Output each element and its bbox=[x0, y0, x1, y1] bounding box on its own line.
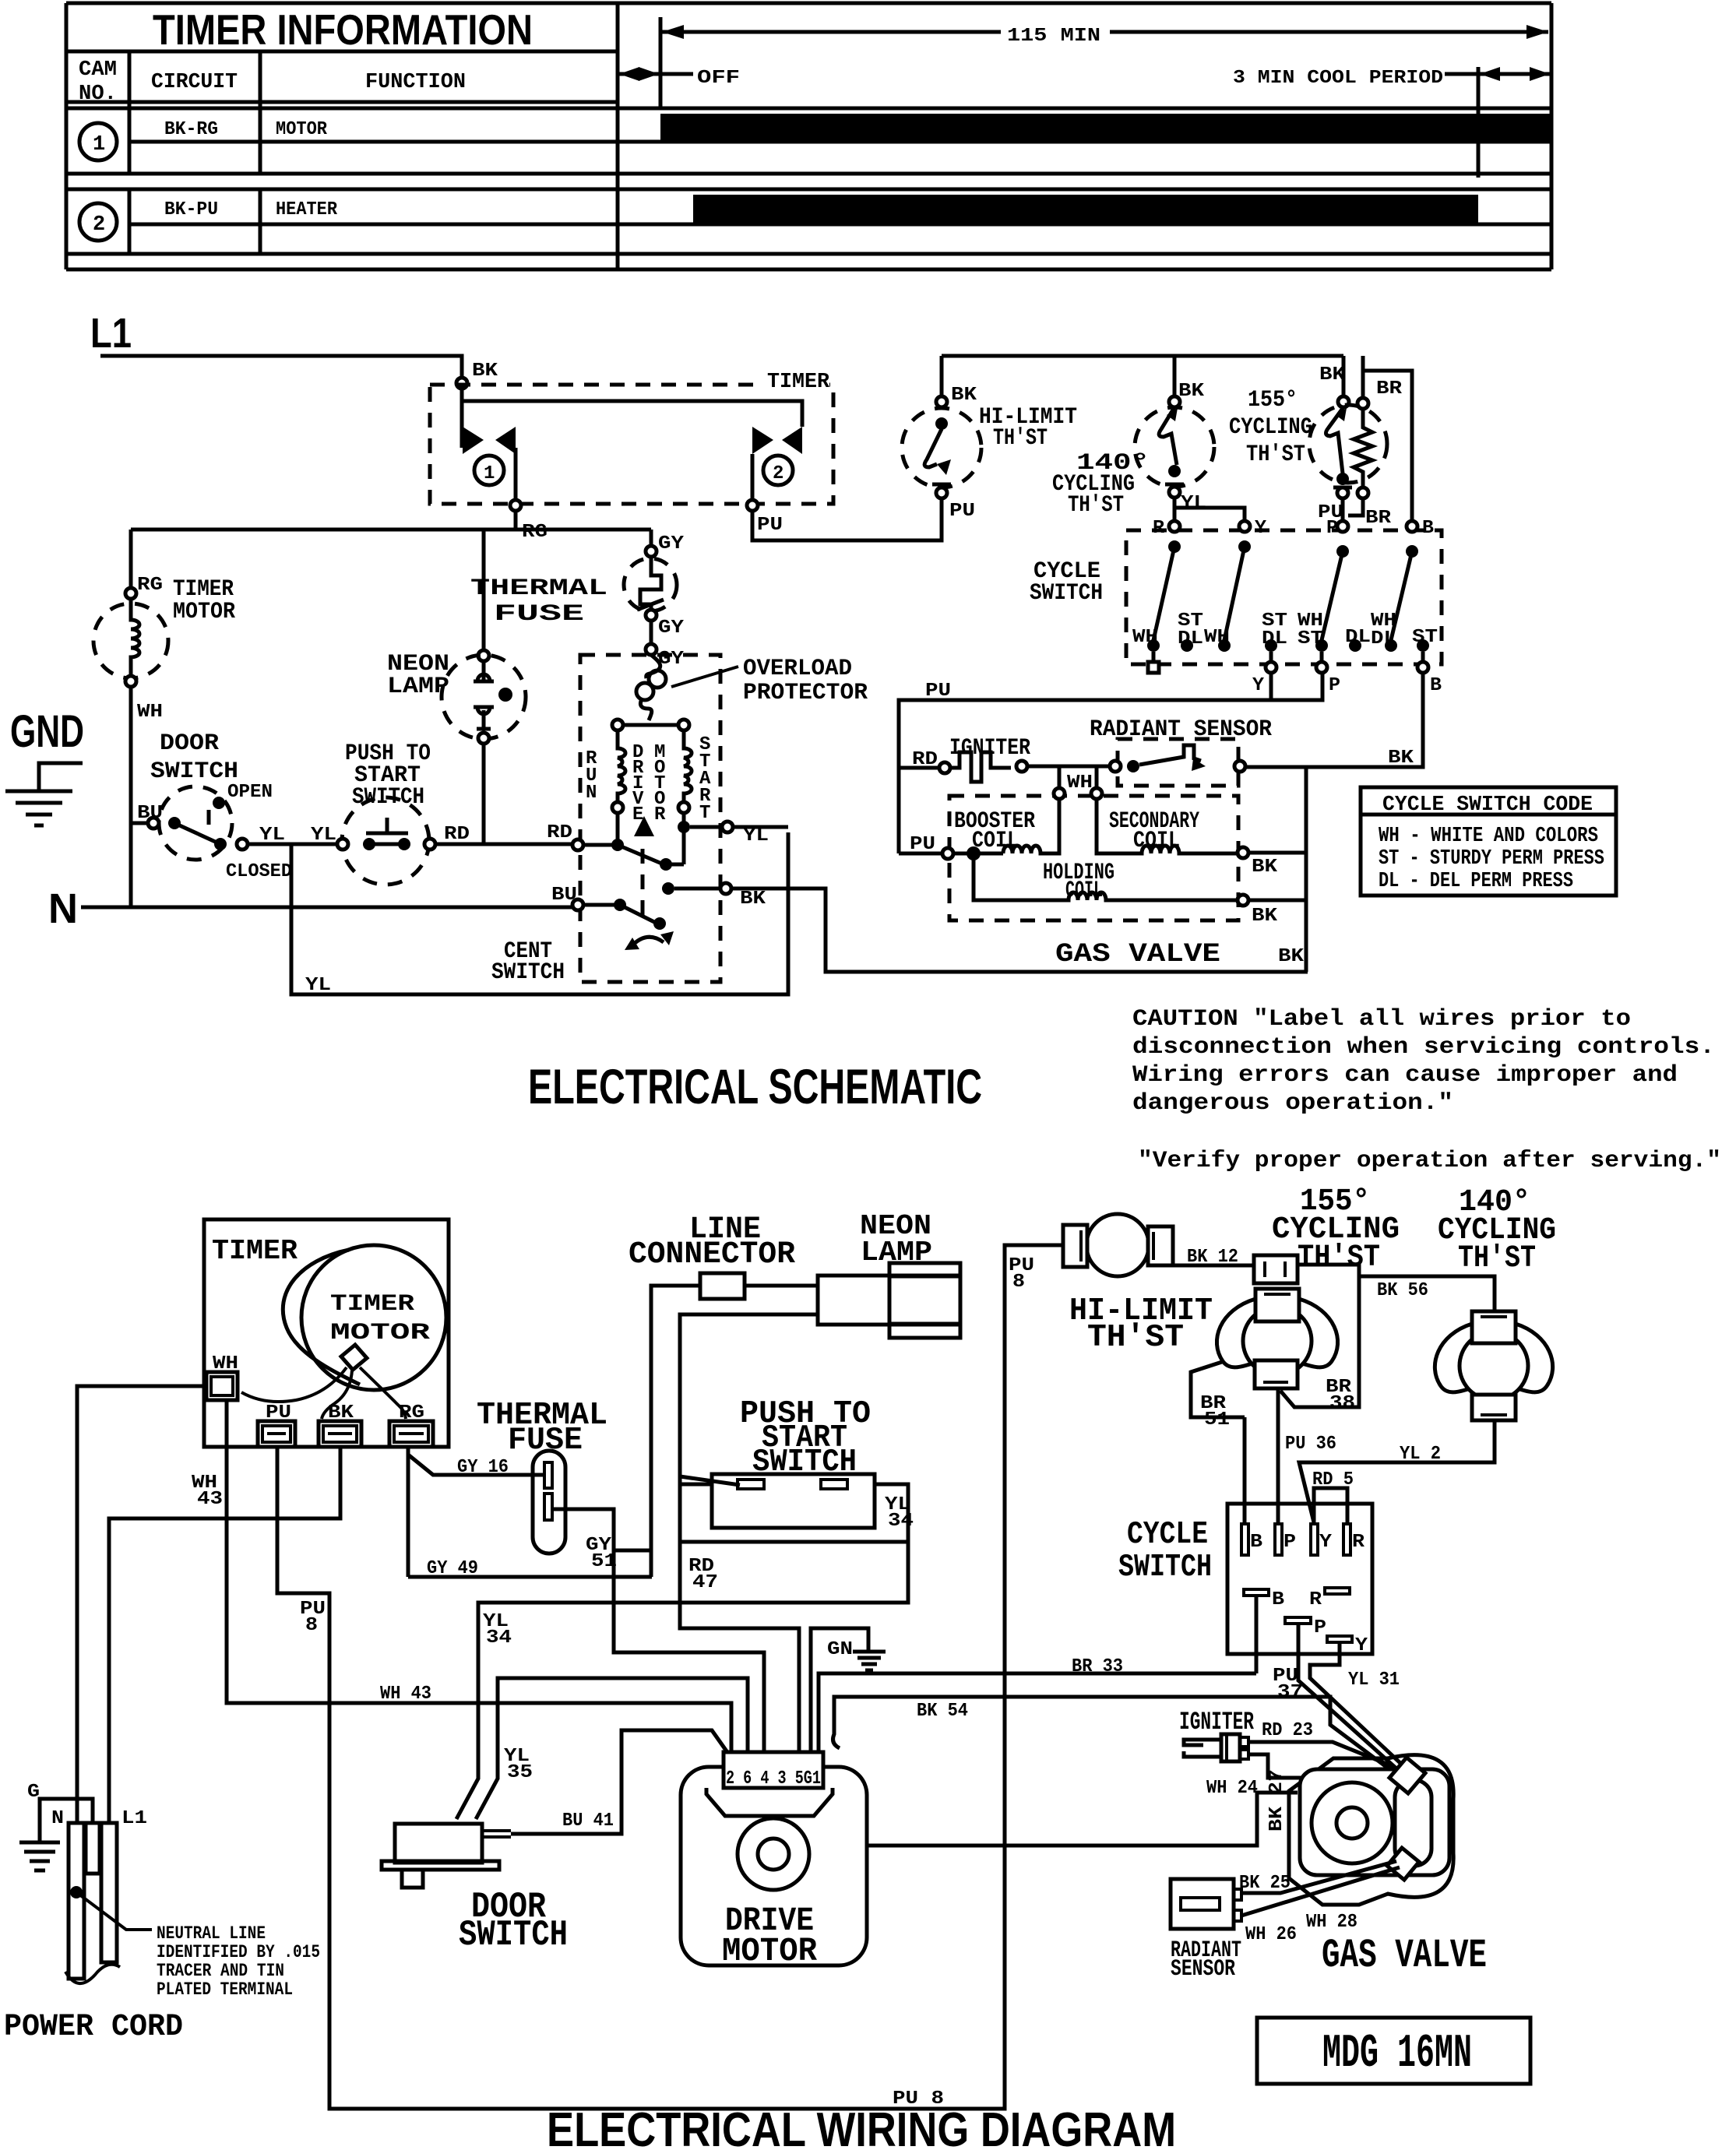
line connector box bbox=[700, 1273, 745, 1299]
cycle switch lower contact R bbox=[1325, 1588, 1350, 1594]
wire BK motor to gas valve bbox=[731, 889, 1308, 972]
timer motor crank diamond bbox=[341, 1345, 367, 1370]
svg-text:YL: YL bbox=[743, 825, 769, 846]
push-to-start contacts bbox=[363, 838, 375, 850]
svg-text:SWITCH: SWITCH bbox=[1118, 1550, 1212, 1585]
svg-text:YL 31: YL 31 bbox=[1348, 1670, 1400, 1691]
140 dashed circle bbox=[1135, 407, 1214, 487]
svg-text:BK 25: BK 25 bbox=[1239, 1873, 1291, 1894]
wire BK gas valve bus bbox=[1305, 767, 1308, 972]
cam number 1 bbox=[79, 123, 117, 160]
bias resistor branch BR bbox=[1361, 356, 1365, 398]
svg-text:BK: BK bbox=[1319, 364, 1346, 385]
terminal RG circle timer motor bbox=[125, 588, 136, 599]
neon lamp branch wire bbox=[482, 530, 486, 650]
svg-text:RD 23: RD 23 bbox=[1262, 1720, 1313, 1741]
svg-text:BK: BK bbox=[1252, 857, 1278, 878]
power cord ground bbox=[40, 1799, 93, 1842]
terminal YL circle motor bbox=[722, 822, 733, 832]
svg-text:GN: GN bbox=[827, 1639, 853, 1660]
terminal BU circle motor bbox=[572, 899, 583, 910]
svg-text:OPEN: OPEN bbox=[227, 782, 273, 803]
wire WH 24 bbox=[1248, 1754, 1393, 1778]
155 connector plug bbox=[1254, 1255, 1298, 1283]
svg-text:Y: Y bbox=[1252, 675, 1265, 696]
secondary coil row bbox=[1095, 768, 1099, 788]
155 cycling thermostat body bbox=[1217, 1289, 1337, 1388]
timer box bbox=[204, 1219, 449, 1447]
terminal WH circle timer motor bbox=[125, 676, 136, 687]
svg-text:8: 8 bbox=[305, 1615, 318, 1636]
svg-text:TIMER INFORMATION: TIMER INFORMATION bbox=[153, 5, 533, 54]
wire RD 5 bbox=[1314, 1488, 1347, 1524]
terminal P bbox=[1337, 521, 1348, 532]
svg-text:N: N bbox=[51, 1808, 64, 1829]
wire BK 56 bbox=[1359, 1276, 1495, 1311]
svg-text:RD 5: RD 5 bbox=[1312, 1469, 1354, 1490]
terminal WH box bbox=[206, 1372, 238, 1400]
svg-text:GY: GY bbox=[658, 533, 685, 554]
svg-text:34: 34 bbox=[486, 1627, 512, 1649]
wire BU row bbox=[583, 903, 614, 907]
svg-text:BR: BR bbox=[1365, 508, 1392, 529]
wire to radiant sensor bbox=[1027, 765, 1110, 769]
svg-text:CIRCUIT: CIRCUIT bbox=[151, 71, 238, 94]
svg-text:FUNCTION: FUNCTION bbox=[365, 71, 466, 94]
svg-text:"Verify proper operation after: "Verify proper operation after serving." bbox=[1138, 1148, 1721, 1174]
cent switch throw arc bbox=[631, 937, 664, 947]
ground symbol GND bbox=[5, 763, 83, 825]
svg-text:CAM: CAM bbox=[79, 58, 117, 82]
svg-text:TIMER: TIMER bbox=[212, 1235, 298, 1267]
wire PU to hi-limit bbox=[752, 498, 942, 540]
svg-text:ST: ST bbox=[1298, 628, 1323, 649]
svg-text:MDG 16MN: MDG 16MN bbox=[1322, 2028, 1472, 2081]
wire BU 41 bbox=[511, 1730, 731, 1834]
wire resistor bottom to PU bbox=[1348, 498, 1363, 516]
svg-text:PU 36: PU 36 bbox=[1285, 1434, 1336, 1455]
drive motor rotor circles bbox=[738, 1818, 809, 1890]
svg-text:MOTOR: MOTOR bbox=[330, 1320, 430, 1346]
svg-text:P: P bbox=[1314, 1617, 1326, 1638]
155 dashed circle bbox=[1309, 405, 1387, 483]
svg-text:BK 12: BK 12 bbox=[1187, 1247, 1238, 1268]
terminal RG circle bbox=[510, 500, 521, 511]
terminal circle neon bottom bbox=[478, 733, 489, 744]
wire cam1 to RG terminal bbox=[514, 448, 518, 500]
wire thermal fuse drop bbox=[650, 530, 653, 546]
wire RG drop to bus bbox=[514, 511, 518, 530]
gas valve dashed box bbox=[949, 796, 1238, 920]
terminal BU circle door switch bbox=[148, 818, 159, 829]
svg-text:GND: GND bbox=[10, 706, 84, 757]
cycle switch pins B P Y R bbox=[1241, 1524, 1248, 1555]
svg-text:B: B bbox=[1250, 1532, 1262, 1553]
svg-text:COIL: COIL bbox=[1133, 828, 1180, 854]
svg-text:BK 56: BK 56 bbox=[1377, 1280, 1428, 1301]
svg-text:MOTOR: MOTOR bbox=[276, 119, 328, 140]
svg-text:WH: WH bbox=[1067, 772, 1093, 793]
door switch body bbox=[395, 1824, 482, 1863]
svg-text:BK-PU: BK-PU bbox=[164, 199, 218, 220]
motor top node bbox=[623, 723, 678, 727]
radiant sensor body bbox=[1171, 1879, 1234, 1929]
cent switch start blade bbox=[618, 845, 664, 864]
holding coil row bbox=[974, 860, 1238, 900]
svg-text:NEUTRAL LINE: NEUTRAL LINE bbox=[157, 1923, 266, 1944]
svg-text:BR 33: BR 33 bbox=[1072, 1656, 1123, 1677]
power cord conductor L1 bbox=[101, 1823, 117, 1962]
svg-text:DL: DL bbox=[1371, 628, 1396, 649]
svg-text:GAS VALVE: GAS VALVE bbox=[1322, 1933, 1487, 1979]
hi-limit lower contact bbox=[932, 484, 951, 487]
heater cam timing bar bbox=[693, 195, 1478, 223]
svg-text:WH 24: WH 24 bbox=[1206, 1778, 1258, 1799]
svg-text:38: 38 bbox=[1329, 1393, 1355, 1414]
thermal fuse element bbox=[640, 557, 661, 610]
svg-text:TH'ST: TH'ST bbox=[1246, 442, 1305, 468]
wire PU 8 bbox=[277, 1245, 1063, 2109]
timer cam 1 contacts bbox=[463, 427, 484, 454]
power cord sheath bbox=[65, 1965, 120, 1983]
svg-text:ST: ST bbox=[1412, 627, 1438, 648]
wire N to door switch bbox=[131, 822, 148, 825]
push to start switch dashed circle bbox=[342, 797, 429, 885]
cycle switch lower contact Y bbox=[1327, 1636, 1352, 1642]
svg-text:L1: L1 bbox=[121, 1808, 147, 1829]
svg-text:FUSE: FUSE bbox=[508, 1423, 583, 1459]
terminal WH circle bbox=[1054, 788, 1065, 799]
svg-text:8: 8 bbox=[1012, 1272, 1025, 1293]
svg-text:3 MIN COOL PERIOD: 3 MIN COOL PERIOD bbox=[1233, 68, 1443, 89]
svg-text:RG: RG bbox=[137, 575, 163, 596]
svg-text:B: B bbox=[1272, 1589, 1284, 1610]
svg-text:BK: BK bbox=[472, 361, 498, 382]
svg-text:MOTOR: MOTOR bbox=[722, 1932, 817, 1970]
svg-text:BK: BK bbox=[740, 889, 766, 910]
svg-text:MOTOR: MOTOR bbox=[173, 599, 235, 625]
svg-text:NO.: NO. bbox=[79, 83, 117, 106]
svg-text:WH - WHITE AND COLORS: WH - WHITE AND COLORS bbox=[1379, 825, 1598, 848]
svg-text:TH'ST: TH'ST bbox=[1458, 1241, 1536, 1276]
svg-text:SWITCH: SWITCH bbox=[491, 959, 565, 986]
timer motor circle bbox=[301, 1245, 446, 1390]
terminal YL circle door switch bbox=[237, 839, 248, 850]
wire WH 43 bbox=[227, 1400, 731, 1754]
wire BK top bus right bbox=[942, 354, 1343, 358]
hi-limit thermostat branch bbox=[940, 356, 944, 396]
neon lamp body bbox=[818, 1276, 960, 1325]
svg-text:ST - STURDY PERM PRESS: ST - STURDY PERM PRESS bbox=[1379, 847, 1604, 871]
dimension tick line left bbox=[659, 17, 663, 108]
wire PU 36 bbox=[1276, 1388, 1280, 1524]
start winding bbox=[684, 730, 692, 802]
svg-text:BK 54: BK 54 bbox=[917, 1701, 968, 1722]
cycle switch code box bbox=[1361, 787, 1616, 896]
svg-text:51: 51 bbox=[591, 1551, 617, 1572]
svg-text:ELECTRICAL SCHEMATIC: ELECTRICAL SCHEMATIC bbox=[528, 1060, 982, 1114]
svg-text:DL - DEL PERM PRESS: DL - DEL PERM PRESS bbox=[1379, 870, 1573, 893]
svg-text:WH 28: WH 28 bbox=[1306, 1912, 1357, 1933]
svg-text:2 6 4 3 5G1: 2 6 4 3 5G1 bbox=[726, 1768, 821, 1789]
terminal circle push-to-start left bbox=[337, 839, 348, 850]
wire neon to RD row bbox=[482, 744, 486, 844]
wire timer motor to N line bbox=[129, 687, 133, 907]
radiant sensor contacts bbox=[1110, 761, 1121, 772]
bottom terminal stubs bbox=[1152, 652, 1156, 662]
svg-text:1: 1 bbox=[93, 133, 105, 157]
timer motor dashed circle bbox=[93, 603, 168, 678]
booster coil bbox=[1003, 799, 1059, 853]
svg-text:BK: BK bbox=[328, 1402, 354, 1423]
door switch open contact bbox=[213, 797, 225, 809]
svg-text:T: T bbox=[699, 803, 710, 824]
svg-text:RG: RG bbox=[399, 1402, 424, 1423]
wire GY 51 bbox=[552, 1509, 764, 1754]
svg-text:PROTECTOR: PROTECTOR bbox=[743, 680, 868, 706]
svg-text:SENSOR: SENSOR bbox=[1171, 1956, 1235, 1983]
igniter body bbox=[1221, 1734, 1240, 1761]
svg-text:SWITCH: SWITCH bbox=[459, 1915, 568, 1955]
svg-text:B: B bbox=[1430, 675, 1442, 696]
terminal GY circle motor box bbox=[646, 644, 657, 655]
neon lamp dashed circle bbox=[442, 655, 526, 739]
wiper arrow bbox=[634, 816, 654, 836]
svg-text:disconnection when servicing c: disconnection when servicing controls. bbox=[1132, 1034, 1715, 1061]
overload protector element bbox=[646, 655, 660, 678]
svg-text:RD: RD bbox=[912, 749, 938, 770]
svg-text:RG: RG bbox=[522, 522, 548, 543]
svg-text:FUSE: FUSE bbox=[494, 601, 584, 628]
svg-text:OFF: OFF bbox=[697, 68, 740, 89]
svg-text:TH'ST: TH'ST bbox=[1298, 1240, 1380, 1276]
terminal RD circle motor bbox=[572, 839, 583, 850]
svg-text:BK: BK bbox=[1278, 946, 1305, 967]
timer internal wires bbox=[241, 1367, 347, 1402]
wire YL 2 bbox=[1299, 1420, 1495, 1522]
svg-text:RADIANT SENSOR: RADIANT SENSOR bbox=[1090, 716, 1272, 743]
wire B to sensor line bbox=[1245, 673, 1423, 767]
svg-text:BK 27: BK 27 bbox=[1266, 1769, 1287, 1832]
terminal GY circle lower bbox=[646, 610, 657, 621]
svg-text:115 MIN: 115 MIN bbox=[1007, 26, 1100, 47]
svg-text:TH'ST: TH'ST bbox=[1068, 492, 1124, 519]
wire line connector to neon bbox=[614, 1286, 818, 1577]
svg-text:PU: PU bbox=[910, 834, 935, 855]
wire GY 16 bbox=[408, 1447, 545, 1577]
cycle switch dashed box bbox=[1126, 530, 1442, 664]
svg-text:WH: WH bbox=[213, 1353, 238, 1374]
svg-text:DOOR: DOOR bbox=[160, 730, 219, 757]
push to start switch box bbox=[680, 1484, 908, 1542]
start winding lower terminal bbox=[678, 802, 689, 813]
terminal Y bbox=[1239, 521, 1250, 532]
svg-text:DL: DL bbox=[1345, 627, 1371, 648]
resistor element bbox=[1354, 409, 1372, 487]
svg-text:DL: DL bbox=[1178, 628, 1203, 649]
svg-text:BR: BR bbox=[1376, 378, 1403, 399]
svg-text:IDENTIFIED BY .015: IDENTIFIED BY .015 bbox=[157, 1942, 320, 1962]
power cord conductor N bbox=[69, 1823, 84, 1979]
timer dashed box bbox=[430, 385, 833, 504]
svg-text:SWITCH: SWITCH bbox=[150, 758, 238, 785]
svg-text:PU: PU bbox=[949, 501, 975, 522]
wire neon to push-to-start and RD 47 bbox=[680, 1314, 818, 1754]
wire BK timer to power cord L1 bbox=[109, 1447, 340, 1823]
wire GY to overload bbox=[650, 621, 653, 644]
wire igniter row bbox=[899, 766, 939, 770]
svg-text:LAMP: LAMP bbox=[861, 1237, 932, 1269]
svg-text:ELECTRICAL WIRING DIAGRAM: ELECTRICAL WIRING DIAGRAM bbox=[547, 2103, 1176, 2150]
terminal PU circle bbox=[747, 500, 758, 511]
thermal fuse dashed circle bbox=[624, 558, 677, 611]
gas valve bottom plug bbox=[1387, 1848, 1419, 1880]
radiant sensor dashed box bbox=[1118, 739, 1238, 786]
door switch dashed circle bbox=[159, 786, 232, 860]
svg-text:SWITCH: SWITCH bbox=[1030, 580, 1103, 607]
cycle switch lower contact B bbox=[1244, 1589, 1269, 1596]
wire neon lamp into left slot bbox=[680, 1476, 740, 1485]
svg-text:N: N bbox=[586, 783, 597, 804]
svg-text:YL: YL bbox=[311, 825, 336, 846]
drive motor body bbox=[681, 1767, 867, 1965]
terminal GY circle bbox=[646, 546, 657, 557]
svg-text:IGNITER: IGNITER bbox=[1179, 1708, 1255, 1737]
140 cycling thermostat branch bbox=[1173, 356, 1177, 396]
svg-text:BU: BU bbox=[551, 885, 577, 906]
dash link door switch bbox=[207, 810, 211, 832]
svg-text:CYCLING: CYCLING bbox=[1229, 414, 1312, 441]
svg-text:P: P bbox=[1326, 518, 1338, 539]
wire BR 38 bbox=[1280, 1265, 1359, 1407]
dimension tick line right bbox=[1477, 67, 1481, 178]
svg-text:35: 35 bbox=[507, 1762, 533, 1783]
neon lamp electrodes bbox=[474, 661, 494, 729]
svg-text:dangerous operation.": dangerous operation." bbox=[1132, 1090, 1453, 1117]
svg-text:PLATED TERMINAL: PLATED TERMINAL bbox=[157, 1979, 293, 2000]
svg-text:LAMP: LAMP bbox=[387, 674, 449, 700]
wire RG bus bbox=[131, 528, 651, 532]
svg-text:WH 26: WH 26 bbox=[1245, 1924, 1297, 1945]
svg-text:BK: BK bbox=[951, 385, 977, 406]
115 MIN dimension arrow bbox=[662, 25, 1548, 39]
svg-text:BK: BK bbox=[1252, 906, 1278, 927]
svg-text:HEATER: HEATER bbox=[276, 199, 338, 220]
svg-text:SWITCH: SWITCH bbox=[352, 784, 424, 811]
svg-text:2: 2 bbox=[93, 213, 105, 237]
timer cam 2 contacts bbox=[752, 427, 773, 454]
wire PU net Y P to gas valve bbox=[899, 673, 1322, 853]
push button symbol bbox=[366, 818, 408, 833]
svg-text:WH 43: WH 43 bbox=[380, 1684, 431, 1705]
svg-text:Wiring errors can cause improp: Wiring errors can cause improper and bbox=[1132, 1062, 1678, 1089]
svg-text:RD: RD bbox=[444, 824, 470, 845]
motor cam timing bar bbox=[660, 114, 1551, 140]
svg-text:YL: YL bbox=[259, 825, 285, 846]
svg-text:SWITCH: SWITCH bbox=[752, 1444, 857, 1480]
wire RD 23 bbox=[1248, 1742, 1394, 1767]
wire L1 to timer BK bbox=[100, 356, 462, 378]
gas valve body bbox=[1289, 1755, 1453, 1905]
svg-text:CONNECTOR: CONNECTOR bbox=[629, 1237, 795, 1272]
wire BR 51 bbox=[1191, 1361, 1245, 1417]
OFF dimension arrow bbox=[619, 67, 693, 81]
svg-text:WH: WH bbox=[137, 702, 163, 723]
svg-text:Y: Y bbox=[1255, 518, 1267, 539]
svg-text:YL: YL bbox=[1181, 493, 1206, 514]
svg-text:GY 16: GY 16 bbox=[457, 1457, 509, 1478]
run winding bbox=[618, 730, 625, 802]
wire BK 54 bbox=[833, 1697, 1396, 1774]
wire GY 49 bbox=[408, 1575, 652, 1579]
wire YL return drop bbox=[291, 832, 788, 994]
terminal BK circle bbox=[456, 378, 467, 389]
svg-text:RD: RD bbox=[547, 822, 572, 843]
terminal PU box bbox=[258, 1421, 295, 1447]
thermal fuse blade slash bbox=[637, 600, 664, 610]
terminal circle neon top bbox=[478, 650, 489, 661]
wire YL 35 bbox=[476, 1678, 748, 1819]
igniter element bbox=[950, 752, 1011, 782]
svg-text:IGNITER: IGNITER bbox=[949, 735, 1030, 762]
svg-text:R: R bbox=[654, 804, 666, 825]
timer information table frame bbox=[66, 3, 1551, 269]
155 cycling thermostat branch bbox=[1342, 356, 1346, 396]
svg-text:POWER CORD: POWER CORD bbox=[4, 2010, 183, 2045]
svg-text:GAS VALVE: GAS VALVE bbox=[1055, 940, 1220, 969]
svg-text:CYCLE: CYCLE bbox=[1127, 1517, 1208, 1553]
svg-text:BK-RG: BK-RG bbox=[164, 119, 218, 140]
terminal BK box bbox=[319, 1421, 361, 1447]
svg-text:P: P bbox=[1329, 675, 1340, 696]
terminal RG box bbox=[389, 1421, 433, 1447]
wire BK 12 bbox=[1168, 1264, 1254, 1268]
svg-text:51: 51 bbox=[1204, 1409, 1230, 1430]
svg-text:CYCLE SWITCH CODE: CYCLE SWITCH CODE bbox=[1382, 793, 1593, 817]
cycle switch box bbox=[1227, 1504, 1372, 1654]
wire RD push-to-start to motor bbox=[435, 843, 572, 846]
svg-text:2: 2 bbox=[773, 463, 783, 484]
door switch common junction bbox=[168, 817, 181, 829]
timer motor belt loop bbox=[283, 1250, 360, 1385]
svg-text:GY 49: GY 49 bbox=[427, 1558, 478, 1579]
svg-text:TRACER AND TIN: TRACER AND TIN bbox=[157, 1961, 284, 1981]
wire cam2 to PU terminal bbox=[751, 454, 755, 500]
terminal B bbox=[1407, 521, 1417, 532]
wire RD inside motor bbox=[583, 843, 618, 847]
hi-limit thermostat body bbox=[1086, 1214, 1149, 1276]
igniter fork bbox=[1184, 1740, 1221, 1757]
door switch terminal tab bbox=[482, 1831, 511, 1837]
cycle switch wipers bbox=[1168, 540, 1181, 553]
timer motor coil bbox=[131, 599, 139, 676]
svg-text:155°: 155° bbox=[1248, 387, 1298, 413]
svg-text:COIL: COIL bbox=[1065, 878, 1103, 904]
BK contact bbox=[662, 882, 674, 895]
svg-text:DL: DL bbox=[1262, 628, 1287, 649]
svg-text:37: 37 bbox=[1277, 1682, 1303, 1703]
svg-text:GY: GY bbox=[658, 618, 685, 639]
svg-text:PU: PU bbox=[266, 1402, 291, 1423]
svg-text:34: 34 bbox=[888, 1511, 914, 1532]
svg-text:R: R bbox=[1153, 518, 1165, 539]
svg-text:CLOSED: CLOSED bbox=[226, 861, 292, 882]
svg-text:BU 41: BU 41 bbox=[562, 1810, 614, 1832]
wire B feed bbox=[1363, 371, 1412, 521]
svg-text:CAUTION "Label all wires prior: CAUTION "Label all wires prior to bbox=[1132, 1006, 1631, 1033]
drive motor connector bbox=[724, 1752, 823, 1788]
cent switch run blade bbox=[620, 905, 656, 923]
